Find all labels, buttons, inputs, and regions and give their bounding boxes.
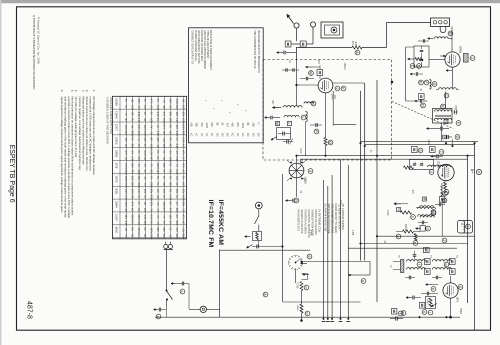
svg-text:6.3V: 6.3V bbox=[130, 105, 133, 110]
pot resistor bbox=[429, 298, 432, 307]
ref circle C34 bbox=[156, 314, 161, 319]
bus vertical bottom 5 bbox=[347, 165, 349, 319]
arrow V5 left bbox=[426, 284, 433, 286]
svg-text:IN EXTREME CCW: IN EXTREME CCW bbox=[318, 210, 322, 233]
svg-text:47V: 47V bbox=[169, 208, 172, 213]
IF coil L5 bbox=[428, 165, 451, 167]
phono gnd arrow 1 bbox=[245, 236, 251, 238]
svg-text:NC: NC bbox=[130, 234, 133, 238]
svg-text:C: C bbox=[410, 65, 414, 68]
svg-text:0V: 0V bbox=[175, 195, 178, 198]
boxed cap E4 bbox=[450, 269, 456, 275]
svg-text:DUMMY ANTENNA VALUE: DUMMY ANTENNA VALUE bbox=[194, 30, 197, 61]
cap C31 arrow gnd bbox=[406, 297, 412, 299]
svg-text:KC: KC bbox=[205, 133, 208, 137]
junction box 248 bbox=[424, 248, 430, 253]
svg-text:.7V: .7V bbox=[124, 234, 127, 238]
svg-text:AC: AC bbox=[169, 125, 172, 129]
svg-text:0V: 0V bbox=[156, 150, 159, 153]
diagonal dashed dial wire bbox=[392, 102, 453, 129]
svg-text:1.: 1. bbox=[92, 90, 96, 93]
svg-text:12V: 12V bbox=[143, 208, 146, 213]
svg-text:250V: 250V bbox=[150, 182, 153, 188]
svg-text:c: c bbox=[431, 211, 435, 213]
svg-text:455: 455 bbox=[231, 123, 234, 128]
svg-text:6.3V: 6.3V bbox=[175, 144, 178, 149]
wire V3 down bbox=[296, 178, 298, 197]
svg-text:250V: 250V bbox=[137, 182, 140, 188]
ref circle V1 bbox=[470, 56, 475, 61]
svg-text:1.2V: 1.2V bbox=[130, 157, 133, 162]
output transformer coil bbox=[464, 222, 465, 233]
svg-text:95V: 95V bbox=[150, 169, 153, 174]
svg-text:AC: AC bbox=[175, 182, 178, 186]
power top wire bbox=[169, 249, 171, 251]
coil L8 bbox=[420, 216, 434, 218]
ref circles C40 bbox=[419, 80, 424, 85]
resistor R5 2200 label bbox=[403, 230, 414, 233]
resistor R1 47K bbox=[352, 46, 362, 49]
svg-text:k: k bbox=[422, 311, 426, 313]
boxed cap E3 bbox=[450, 259, 456, 265]
transformer T2 coils bbox=[435, 110, 452, 112]
svg-text:NC: NC bbox=[156, 195, 159, 199]
top edge gray bar bbox=[0, 0, 500, 3]
svg-text:G: G bbox=[432, 83, 436, 86]
svg-text:47V: 47V bbox=[124, 150, 127, 155]
svg-text:-1V: -1V bbox=[137, 163, 140, 167]
FM trimmer cluster bbox=[277, 128, 291, 140]
tone pot bbox=[300, 282, 303, 291]
svg-text:NC: NC bbox=[143, 169, 146, 173]
arrow into bus bbox=[349, 274, 356, 276]
FM coil L3 vertical bbox=[306, 112, 308, 122]
svg-text:NC: NC bbox=[137, 157, 140, 161]
tube V4 12BA6 IF bbox=[438, 164, 454, 180]
wire between C1 C2 bbox=[291, 43, 300, 45]
power to tuner wire bbox=[220, 249, 311, 251]
pilot circle bbox=[200, 306, 206, 312]
cap C29 bbox=[435, 276, 437, 280]
cap in box 1 bbox=[413, 163, 416, 165]
svg-text:-1V: -1V bbox=[150, 105, 153, 109]
wire plug left leg bbox=[166, 250, 168, 292]
ref circle R2 bbox=[328, 140, 333, 145]
svg-text:0V: 0V bbox=[137, 150, 140, 153]
svg-text:NC: NC bbox=[143, 202, 146, 206]
ref circle C10 bbox=[455, 135, 460, 140]
ref circle V3 bbox=[308, 169, 313, 174]
svg-text:6.3V: 6.3V bbox=[137, 125, 140, 130]
bus vertical bottom 1 bbox=[323, 180, 325, 319]
svg-text:.7V: .7V bbox=[162, 99, 165, 103]
svg-text:12SA7: 12SA7 bbox=[115, 214, 118, 222]
svg-text:250V: 250V bbox=[130, 131, 133, 137]
svg-text:100V: 100V bbox=[169, 157, 172, 163]
svg-text:.7V: .7V bbox=[156, 208, 159, 212]
svg-text:47K: 47K bbox=[351, 41, 353, 46]
ref circle IFT2 bbox=[431, 210, 436, 215]
svg-text:12V: 12V bbox=[130, 176, 133, 181]
wire C10 to bus bbox=[452, 139, 454, 145]
svg-text:12BE6: 12BE6 bbox=[115, 150, 118, 158]
wire left drop bbox=[405, 47, 407, 101]
ref circle C23 bbox=[442, 198, 447, 203]
boxed ref C10 bbox=[443, 135, 447, 139]
boxed capacitor C20 bbox=[412, 147, 418, 153]
bus vertical 1 bbox=[360, 91, 362, 261]
svg-text:6.3V: 6.3V bbox=[124, 189, 127, 194]
svg-text:0V: 0V bbox=[162, 195, 165, 198]
IFT2 coils bbox=[418, 207, 436, 209]
bus vertical 2 bbox=[364, 83, 366, 261]
svg-text:-8V: -8V bbox=[162, 105, 165, 109]
svg-text:1.2V: 1.2V bbox=[156, 131, 159, 136]
svg-text:100V: 100V bbox=[150, 144, 153, 150]
svg-text:250V: 250V bbox=[150, 195, 153, 201]
svg-text:95V: 95V bbox=[175, 208, 178, 213]
tube V2 12AT7 FM bbox=[318, 78, 333, 93]
svg-text:AC: AC bbox=[143, 112, 146, 116]
svg-text:NC: NC bbox=[169, 131, 172, 135]
svg-text:-8V: -8V bbox=[156, 189, 159, 193]
svg-text:AC: AC bbox=[156, 125, 159, 129]
ref circle C35 bbox=[180, 289, 185, 294]
capacitor C13 gnd arrow bbox=[271, 137, 277, 141]
svg-text:1.2V: 1.2V bbox=[181, 227, 184, 232]
svg-text:2: 2 bbox=[335, 88, 339, 90]
wire V4 chain to bus bbox=[441, 202, 443, 236]
svg-text:19T8: 19T8 bbox=[456, 297, 459, 303]
phono comp box bbox=[253, 232, 262, 241]
phono jack P1 bbox=[255, 202, 262, 209]
bus vertical bottom 3 bbox=[331, 175, 333, 319]
svg-text:26V: 26V bbox=[124, 215, 127, 220]
capacitor C3 with ground arrow bbox=[283, 51, 285, 55]
svg-text:MC: MC bbox=[256, 133, 259, 137]
svg-text:95V: 95V bbox=[156, 137, 159, 142]
svg-text:3: 3 bbox=[308, 170, 312, 172]
svg-text:RESULTING IF PEAK ALIGNMENT: RESULTING IF PEAK ALIGNMENT bbox=[209, 30, 212, 70]
svg-text:AC: AC bbox=[175, 215, 178, 219]
capacitor C25 bbox=[421, 221, 423, 225]
svg-text:250V: 250V bbox=[124, 169, 127, 175]
svg-text:6.3V: 6.3V bbox=[124, 221, 127, 226]
ref circle V2b bbox=[341, 86, 346, 91]
cap C30 bbox=[426, 292, 428, 296]
svg-text:26V: 26V bbox=[181, 131, 184, 136]
svg-text:AC: AC bbox=[137, 144, 140, 148]
svg-text:NC: NC bbox=[162, 131, 165, 135]
boxed ref small bbox=[397, 208, 401, 212]
V3 pin stubs bbox=[287, 160, 290, 163]
svg-text:AC: AC bbox=[181, 221, 184, 225]
capacitor C24 bbox=[438, 203, 440, 207]
wire coil to bus bbox=[305, 122, 307, 156]
svg-text:12V: 12V bbox=[181, 105, 184, 110]
capacitor C22 arrow bbox=[431, 155, 437, 157]
svg-text:0V: 0V bbox=[169, 163, 172, 166]
svg-text:12V: 12V bbox=[124, 137, 127, 142]
svg-text:100V: 100V bbox=[137, 169, 140, 175]
wire T1 to T2 bbox=[445, 92, 447, 109]
ref circle R5 bbox=[396, 234, 401, 239]
svg-text:d: d bbox=[426, 228, 430, 230]
svg-text:12V: 12V bbox=[169, 215, 172, 220]
svg-text:5.: 5. bbox=[71, 90, 75, 93]
wire R5 bbox=[396, 231, 403, 233]
ref circle R4 bbox=[443, 191, 448, 196]
coil L9 vertical bbox=[430, 80, 432, 90]
svg-text:-1V: -1V bbox=[143, 176, 146, 180]
ref circle C21 bbox=[439, 150, 444, 155]
boxed cap E1 bbox=[425, 259, 431, 265]
svg-text:26V: 26V bbox=[143, 221, 146, 226]
svg-text:0V: 0V bbox=[181, 157, 184, 160]
tube V5 19T8 detector bbox=[443, 283, 458, 298]
boxed cap F1 bbox=[420, 303, 425, 309]
svg-text:AC: AC bbox=[150, 137, 153, 141]
svg-text:12V: 12V bbox=[150, 202, 153, 207]
svg-text:0V: 0V bbox=[169, 202, 172, 205]
svg-text:100V: 100V bbox=[181, 195, 184, 201]
svg-text:0V: 0V bbox=[124, 99, 127, 102]
svg-text:© Howard W. Sams & Co., Inc. 1: © Howard W. Sams & Co., Inc. 1948 bbox=[37, 17, 41, 64]
svg-text:47K: 47K bbox=[411, 190, 413, 195]
svg-text:-8V: -8V bbox=[130, 112, 133, 116]
tube chart tube name column bbox=[115, 98, 118, 233]
svg-text:MC: MC bbox=[220, 133, 223, 137]
band switch arm bbox=[296, 259, 301, 263]
ref circle pot bbox=[428, 310, 433, 315]
svg-text:1400: 1400 bbox=[205, 123, 208, 129]
wire antenna down bbox=[296, 28, 298, 41]
svg-text:W: W bbox=[442, 199, 446, 203]
osc coil小 bbox=[304, 102, 314, 104]
svg-text:TO REAR. ROTATION: TO REAR. ROTATION bbox=[338, 204, 342, 230]
wire loop down bbox=[448, 38, 452, 40]
wire phono bus bbox=[258, 241, 260, 247]
svg-text:2.2M: 2.2M bbox=[309, 230, 311, 235]
svg-text:KC: KC bbox=[236, 133, 239, 137]
AM IF box bbox=[410, 160, 434, 170]
arrow + box C26 bbox=[416, 228, 422, 230]
svg-text:0V: 0V bbox=[162, 169, 165, 172]
resistor R8 vertical bbox=[300, 304, 303, 313]
left edge gray strip bbox=[0, 0, 1, 345]
tube V1 12BE6 AM converter bbox=[445, 52, 460, 67]
box around V1 grid comps bbox=[414, 46, 429, 67]
ref e5 bbox=[417, 262, 422, 267]
cap C28 bbox=[408, 276, 410, 280]
svg-text:455KC: 455KC bbox=[343, 63, 346, 71]
svg-text:100V: 100V bbox=[137, 131, 140, 137]
svg-text:0V: 0V bbox=[124, 105, 127, 108]
phono gnd arrow 2 bbox=[247, 245, 253, 249]
svg-text:NC: NC bbox=[150, 157, 153, 161]
svg-text:47V: 47V bbox=[181, 215, 184, 220]
switch contact L bbox=[302, 274, 308, 280]
svg-text:AC: AC bbox=[137, 208, 140, 212]
svg-text:0V: 0V bbox=[130, 118, 133, 121]
ref circle osc bbox=[311, 101, 316, 106]
loop coil horizontal bbox=[435, 37, 449, 39]
svg-text:0V: 0V bbox=[162, 150, 165, 153]
svg-text:0V: 0V bbox=[156, 118, 159, 121]
svg-text:12V: 12V bbox=[162, 189, 165, 194]
svg-text:0V: 0V bbox=[162, 176, 165, 179]
svg-text:.7V: .7V bbox=[156, 202, 159, 206]
ref circle tuner top bbox=[309, 71, 314, 76]
ref f4 bbox=[401, 311, 406, 316]
wire V4 down bbox=[445, 181, 447, 182]
wire jack to switch bbox=[312, 27, 314, 44]
svg-text:SHOWN IN AM POS: SHOWN IN AM POS bbox=[300, 210, 304, 234]
svg-text:AC: AC bbox=[169, 144, 172, 148]
ref circle L2 bbox=[301, 115, 306, 120]
svg-text:10.7: 10.7 bbox=[226, 123, 229, 128]
wire V2 plate loop bbox=[333, 82, 364, 84]
svg-text:26V: 26V bbox=[137, 176, 140, 181]
svg-text:0V: 0V bbox=[181, 176, 184, 179]
svg-text:6.3V: 6.3V bbox=[181, 125, 184, 130]
svg-text:6.3V: 6.3V bbox=[137, 112, 140, 117]
svg-text:-8V: -8V bbox=[124, 208, 127, 212]
svg-text:FROM FRONT TO REAR: FROM FRONT TO REAR bbox=[334, 204, 338, 234]
svg-text:AC: AC bbox=[181, 169, 184, 173]
svg-text:600: 600 bbox=[236, 123, 239, 128]
svg-text:35W4: 35W4 bbox=[459, 308, 461, 315]
svg-text:1.2V: 1.2V bbox=[150, 150, 153, 155]
svg-text:500K: 500K bbox=[426, 299, 428, 305]
trimmer caps C14 bbox=[286, 139, 288, 143]
svg-text:26V: 26V bbox=[181, 202, 184, 207]
ref circle R7 bbox=[413, 241, 418, 246]
boxed capacitor C1 bbox=[285, 41, 291, 47]
svg-text:5: 5 bbox=[458, 286, 462, 288]
svg-text:26V: 26V bbox=[130, 163, 133, 168]
svg-text:.7V: .7V bbox=[150, 163, 153, 167]
svg-text:0V: 0V bbox=[130, 137, 133, 140]
ref circle phono bbox=[263, 292, 268, 297]
svg-text:Q: Q bbox=[328, 141, 332, 144]
svg-text:b: b bbox=[411, 216, 415, 218]
wire V5 down bbox=[450, 298, 452, 317]
svg-text:100V: 100V bbox=[162, 118, 165, 124]
capacitor C27 bbox=[413, 254, 417, 256]
svg-text:-8V: -8V bbox=[143, 234, 146, 238]
svg-text:47V: 47V bbox=[130, 169, 133, 174]
svg-text:.7V: .7V bbox=[150, 208, 153, 212]
ref circle R6 bbox=[411, 215, 416, 220]
band switch rotary bbox=[288, 255, 302, 269]
svg-text:.7V: .7V bbox=[156, 215, 159, 219]
svg-text:THE CONTRIBUTION OF THIS M: THE CONTRIBUTION OF THIS M bbox=[253, 30, 256, 68]
capacitor C12 gnd bbox=[270, 116, 272, 120]
svg-text:600: 600 bbox=[200, 123, 203, 128]
switch arrow 2 bbox=[303, 274, 310, 276]
bus vertical right bbox=[474, 143, 476, 330]
svg-text:6.3V: 6.3V bbox=[150, 215, 153, 220]
svg-text:p: p bbox=[305, 313, 309, 315]
resistor R4 22K vertical bbox=[444, 182, 447, 190]
svg-text:.7V: .7V bbox=[181, 208, 184, 212]
svg-text:26V: 26V bbox=[156, 227, 159, 232]
ref circle L6 bbox=[444, 190, 449, 195]
cap C33 bbox=[256, 245, 258, 249]
boxed capacitor C2 bbox=[300, 41, 306, 47]
svg-text:AC: AC bbox=[181, 144, 184, 148]
svg-text:6.3V: 6.3V bbox=[156, 112, 159, 117]
svg-text:.7V: .7V bbox=[162, 215, 165, 219]
svg-text:ADJUST FOLLOWING IN ORDER: ADJUST FOLLOWING IN ORDER bbox=[203, 30, 206, 68]
wire T2 to bus bbox=[441, 123, 443, 141]
switch wire down bbox=[295, 270, 297, 283]
svg-text:12BA6: 12BA6 bbox=[115, 137, 118, 145]
svg-text:KC: KC bbox=[200, 133, 203, 137]
svg-text:-1V: -1V bbox=[169, 150, 172, 154]
power plug bbox=[164, 244, 168, 248]
bus terminals bbox=[322, 321, 326, 323]
svg-text:1400: 1400 bbox=[241, 123, 244, 129]
bus wire drop at V3 bbox=[296, 156, 298, 163]
capacitor C11 at V2 grid bbox=[305, 77, 307, 81]
svg-text:6BA6: 6BA6 bbox=[115, 227, 118, 234]
svg-text:12V: 12V bbox=[175, 189, 178, 194]
phono switch arm bbox=[255, 216, 259, 224]
svg-text:A GENERAL GUIDE OF THIS RECEIV: A GENERAL GUIDE OF THIS RECEIVER bbox=[106, 97, 109, 144]
boxed cap E2 bbox=[425, 269, 431, 275]
svg-text:.7V: .7V bbox=[156, 221, 159, 225]
wire plug top bus bbox=[169, 241, 171, 244]
svg-text:-8V: -8V bbox=[124, 144, 127, 148]
ref circle T1 bbox=[444, 93, 449, 98]
svg-text:6: 6 bbox=[307, 256, 311, 258]
svg-text:35W4: 35W4 bbox=[115, 201, 118, 208]
wire run A bbox=[377, 235, 475, 237]
wire left vertical long bbox=[282, 174, 284, 302]
svg-text:VOLTAGES TAKEN WITH VTVM: VOLTAGES TAKEN WITH VTVM bbox=[109, 97, 112, 134]
svg-text:W: W bbox=[309, 71, 313, 75]
svg-text:6.3V: 6.3V bbox=[156, 105, 159, 110]
svg-text:12V: 12V bbox=[181, 112, 184, 117]
bus wire top pair bbox=[297, 155, 475, 157]
bus vertical bottom 2 bbox=[327, 186, 329, 319]
resistor R7 bbox=[414, 234, 417, 241]
boxed capacitor C21 bbox=[430, 147, 436, 153]
svg-text:0V: 0V bbox=[137, 195, 140, 198]
svg-text:POSITION AS SEEN: POSITION AS SEEN bbox=[304, 210, 308, 234]
svg-text:AC: AC bbox=[169, 189, 172, 193]
ref circle SW bbox=[307, 254, 312, 259]
capacitor pair top bbox=[285, 68, 287, 71]
loop tab bbox=[440, 26, 446, 32]
FM coil L1 with arrow bbox=[283, 106, 302, 108]
svg-text:12V: 12V bbox=[137, 99, 140, 104]
svg-text:12V: 12V bbox=[162, 234, 165, 239]
svg-text:B+: B+ bbox=[470, 169, 474, 173]
svg-text:100V: 100V bbox=[124, 182, 127, 188]
lamp cap C36 bbox=[394, 316, 396, 318]
svg-text:OSC: OSC bbox=[454, 105, 456, 110]
svg-text:0V: 0V bbox=[169, 221, 172, 224]
boxed cap above V2 bbox=[317, 70, 323, 76]
svg-text:26V: 26V bbox=[169, 169, 172, 174]
cap C32 bottom left bbox=[395, 316, 397, 320]
bus horizontal switch bbox=[302, 261, 371, 263]
wire osc loop left bbox=[332, 91, 334, 126]
svg-text:IF=455KC AM: IF=455KC AM bbox=[217, 200, 224, 246]
